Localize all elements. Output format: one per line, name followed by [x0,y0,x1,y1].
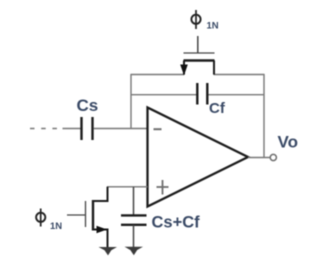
ground (capacitor) [125,247,144,255]
capacitor Cs+Cf [121,215,147,224]
svg-text:Vo: Vo [278,133,298,152]
label phi_1N (bottom) [36,209,62,233]
wire : right feedback vertical [263,74,265,158]
capacitor Cs [82,117,93,140]
wire : cap to ground [133,225,135,248]
source lead with arrow [183,61,185,75]
wire : output [248,157,270,159]
node : output terminal circle [270,154,276,160]
wire : top branch right [214,74,265,76]
wire : Cs to inverting input [94,128,148,130]
capacitor Cf [197,83,207,105]
svg-text:Cf: Cf [209,100,226,117]
gate bar [85,201,87,227]
drain lead [93,187,108,201]
wire : non-inverting input [107,186,148,188]
wire : plus node to cap [133,187,135,215]
channel bar [184,59,215,61]
transistor M2 (bottom switch) [67,187,108,248]
wire : Cf branch right [208,94,265,96]
ground (transistor source) [99,247,118,255]
wire : input to Cs [63,128,82,130]
op-amp plus sign [157,180,169,195]
op-amp minus sign [154,128,162,130]
svg-text:Cs: Cs [77,96,99,115]
drain lead [213,61,215,75]
svg-text:1N: 1N [50,221,62,232]
channel bar [92,200,94,231]
gate lead [197,36,199,53]
wire : dashed input line [30,128,58,130]
svg-text:Cs+Cf: Cs+Cf [152,214,201,232]
wire : Cf branch left [131,94,198,96]
transistor M1 (top switch) [180,36,214,76]
gate bar [184,52,215,54]
wire : top branch left [131,74,185,76]
label phi_1N (top) [191,10,218,32]
op-amp U1 [148,108,249,207]
wire : left feedback vertical [130,74,132,129]
gate lead [67,214,86,216]
svg-text:1N: 1N [207,21,219,32]
source lead with arrow [93,230,108,249]
